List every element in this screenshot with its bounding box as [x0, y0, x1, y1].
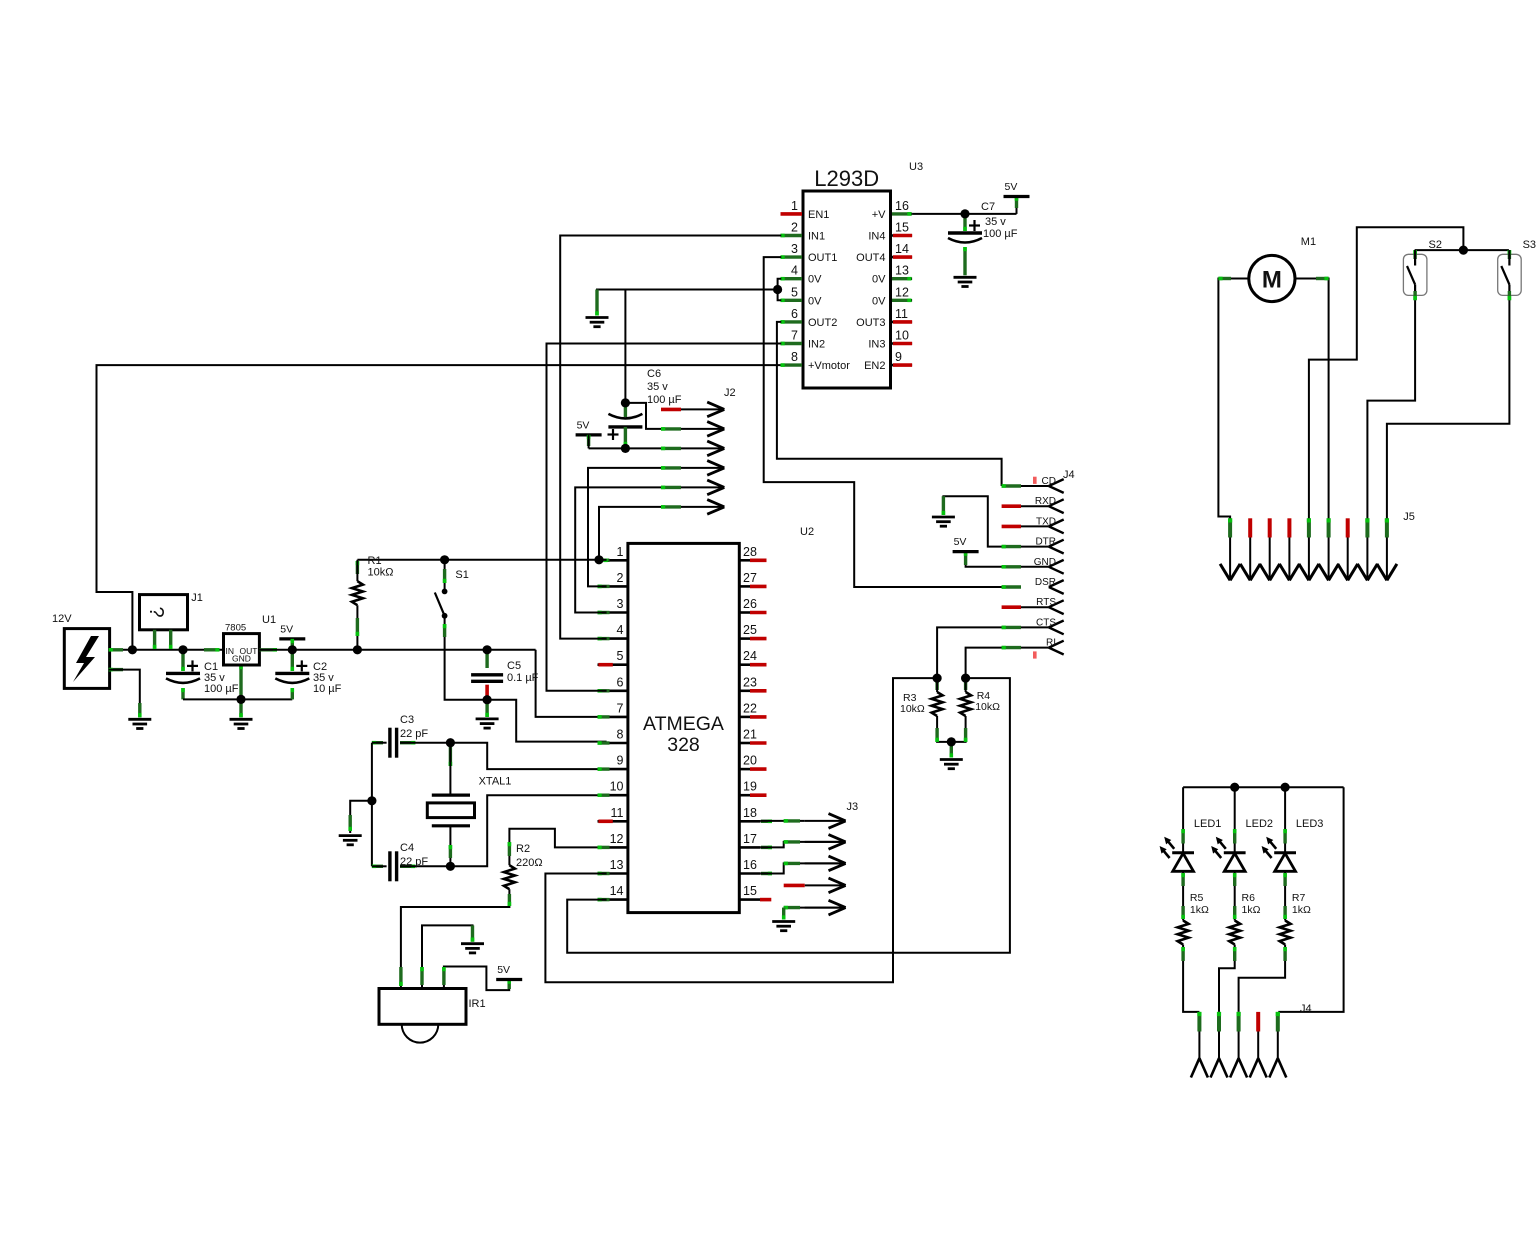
- svg-text:220Ω: 220Ω: [516, 857, 543, 869]
- svg-text:22 pF: 22 pF: [400, 728, 428, 740]
- svg-text:EN1: EN1: [808, 209, 829, 221]
- svg-text:1kΩ: 1kΩ: [1292, 904, 1311, 916]
- svg-text:J4: J4: [1300, 1003, 1312, 1015]
- svg-text:L293D: L293D: [814, 166, 879, 191]
- svg-text:R7: R7: [1292, 892, 1306, 904]
- svg-text:OUT1: OUT1: [808, 252, 837, 264]
- svg-text:+V: +V: [872, 209, 886, 221]
- svg-text:19: 19: [743, 780, 757, 794]
- svg-text:14: 14: [610, 884, 624, 898]
- svg-text:14: 14: [895, 242, 909, 256]
- svg-text:6: 6: [791, 307, 798, 321]
- svg-text:R5: R5: [1190, 892, 1204, 904]
- svg-text:J4: J4: [1063, 469, 1075, 481]
- svg-text:35 v: 35 v: [985, 216, 1006, 228]
- svg-text:5V: 5V: [954, 536, 967, 548]
- svg-text:IN1: IN1: [808, 231, 825, 243]
- svg-text:11: 11: [895, 307, 908, 321]
- svg-text:12: 12: [895, 285, 909, 299]
- svg-text:13: 13: [610, 858, 624, 872]
- svg-text:OUT3: OUT3: [856, 317, 885, 329]
- svg-text:1kΩ: 1kΩ: [1242, 904, 1261, 916]
- svg-text:7805: 7805: [225, 623, 246, 634]
- svg-text:13: 13: [895, 264, 909, 278]
- svg-text:U3: U3: [909, 161, 923, 173]
- svg-text:C4: C4: [400, 842, 414, 854]
- svg-text:LED2: LED2: [1246, 818, 1274, 830]
- svg-text:22 pF: 22 pF: [400, 856, 428, 868]
- svg-text:0V: 0V: [872, 274, 886, 286]
- svg-text:R2: R2: [516, 843, 530, 855]
- svg-text:328: 328: [667, 734, 700, 756]
- svg-text:12: 12: [610, 832, 624, 846]
- svg-text:EN2: EN2: [864, 360, 885, 372]
- svg-text:C5: C5: [507, 660, 521, 672]
- svg-text:24: 24: [743, 649, 757, 663]
- svg-text:10kΩ: 10kΩ: [975, 701, 1000, 713]
- svg-text:3: 3: [791, 242, 798, 256]
- svg-text:2: 2: [791, 221, 798, 235]
- svg-text:J2: J2: [724, 387, 736, 399]
- svg-text:M: M: [1262, 267, 1282, 294]
- svg-text:16: 16: [743, 858, 757, 872]
- svg-text:26: 26: [743, 597, 757, 611]
- svg-text:10kΩ: 10kΩ: [368, 567, 394, 579]
- svg-text:S1: S1: [455, 569, 468, 581]
- svg-text:5V: 5V: [1005, 181, 1018, 193]
- svg-text:C7: C7: [981, 201, 995, 213]
- svg-text:1kΩ: 1kΩ: [1190, 904, 1209, 916]
- svg-text:28: 28: [743, 545, 757, 559]
- svg-text:5: 5: [617, 649, 624, 663]
- svg-text:7: 7: [617, 701, 624, 715]
- svg-text:15: 15: [743, 884, 757, 898]
- svg-text:J1: J1: [191, 592, 203, 604]
- svg-text:10 µF: 10 µF: [313, 683, 342, 695]
- svg-text:1: 1: [791, 199, 798, 213]
- svg-text:27: 27: [743, 571, 757, 585]
- svg-text:IN2: IN2: [808, 339, 825, 351]
- svg-text:ATMEGA: ATMEGA: [643, 713, 724, 735]
- svg-text:5V: 5V: [280, 623, 293, 635]
- svg-text:IN3: IN3: [868, 339, 885, 351]
- svg-text:4: 4: [617, 623, 624, 637]
- svg-text:5V: 5V: [497, 964, 510, 976]
- svg-text:J3: J3: [847, 801, 859, 813]
- svg-text:6: 6: [617, 675, 624, 689]
- svg-text:12V: 12V: [52, 613, 72, 625]
- svg-text:S3: S3: [1523, 239, 1536, 251]
- svg-text:100 µF: 100 µF: [647, 394, 682, 406]
- svg-text:25: 25: [743, 623, 757, 637]
- svg-text:4: 4: [791, 264, 798, 278]
- svg-text:18: 18: [743, 806, 757, 820]
- svg-text:+Vmotor: +Vmotor: [808, 360, 850, 372]
- svg-text:15: 15: [895, 221, 909, 235]
- svg-text:U1: U1: [262, 614, 276, 626]
- svg-text:10: 10: [610, 780, 624, 794]
- svg-text:10kΩ: 10kΩ: [900, 703, 925, 715]
- svg-text:0V: 0V: [872, 295, 886, 307]
- svg-text:XTAL1: XTAL1: [479, 776, 512, 788]
- svg-text:16: 16: [895, 199, 909, 213]
- svg-text:7: 7: [791, 329, 798, 343]
- svg-text:5: 5: [791, 285, 798, 299]
- svg-text:35 v: 35 v: [647, 381, 668, 393]
- svg-text:20: 20: [743, 754, 757, 768]
- svg-text:C3: C3: [400, 714, 414, 726]
- svg-text:8: 8: [617, 728, 624, 742]
- svg-text:2: 2: [617, 571, 624, 585]
- svg-text:0.1 µF: 0.1 µF: [507, 672, 539, 684]
- svg-text:?: ?: [145, 606, 167, 617]
- svg-text:5V: 5V: [577, 419, 590, 431]
- svg-text:J5: J5: [1403, 511, 1415, 523]
- svg-text:9: 9: [895, 350, 902, 364]
- svg-text:LED3: LED3: [1296, 818, 1324, 830]
- svg-text:22: 22: [743, 701, 757, 715]
- svg-text:17: 17: [743, 832, 757, 846]
- svg-text:DSR: DSR: [1035, 577, 1056, 588]
- svg-text:IN4: IN4: [868, 231, 885, 243]
- svg-text:S2: S2: [1429, 239, 1442, 251]
- svg-text:0V: 0V: [808, 295, 822, 307]
- svg-text:M1: M1: [1301, 236, 1316, 248]
- svg-text:9: 9: [617, 754, 624, 768]
- svg-text:R6: R6: [1242, 892, 1256, 904]
- svg-text:23: 23: [743, 675, 757, 689]
- svg-text:0V: 0V: [808, 274, 822, 286]
- svg-text:8: 8: [791, 350, 798, 364]
- svg-text:R1: R1: [368, 555, 382, 567]
- svg-text:C6: C6: [647, 368, 661, 380]
- svg-text:OUT4: OUT4: [856, 252, 885, 264]
- svg-text:21: 21: [743, 728, 757, 742]
- svg-text:100 µF: 100 µF: [983, 228, 1018, 240]
- svg-text:LED1: LED1: [1194, 818, 1222, 830]
- svg-text:1: 1: [617, 545, 624, 559]
- svg-text:IR1: IR1: [469, 998, 486, 1010]
- svg-text:U2: U2: [800, 526, 814, 538]
- svg-text:10: 10: [895, 329, 909, 343]
- svg-text:11: 11: [611, 806, 624, 820]
- svg-text:100 µF: 100 µF: [204, 683, 239, 695]
- svg-text:3: 3: [617, 597, 624, 611]
- svg-text:OUT2: OUT2: [808, 317, 837, 329]
- svg-text:GND: GND: [232, 654, 251, 664]
